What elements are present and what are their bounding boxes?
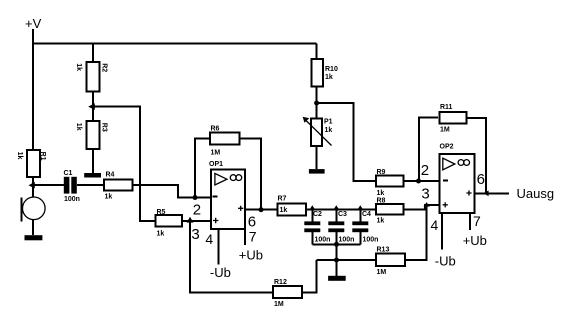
wire R10 to P1 (316, 87, 318, 119)
node dot OP1 output (259, 207, 264, 212)
wire +V stem down to R1 (32, 29, 34, 150)
svg-text:1M: 1M (440, 127, 450, 134)
svg-text:R12: R12 (274, 279, 287, 286)
pin marker plus input OP2 (443, 202, 448, 207)
wire R11 left riser (419, 117, 438, 181)
wire R6 right to output node (240, 139, 262, 210)
svg-text:7: 7 (249, 229, 257, 245)
node junction arrow at pin3 (187, 217, 194, 223)
wire OP2 output (474, 192, 509, 194)
node junction arrow C2 tap (309, 205, 315, 210)
wire C4 stem (359, 210, 361, 245)
wire C1 to R4 (77, 184, 104, 186)
node junction arrow C3 tap (333, 205, 339, 210)
svg-text:6: 6 (477, 171, 485, 188)
svg-text:1k: 1k (377, 218, 385, 225)
resistor R1 (27, 150, 40, 177)
op-amp U2 infinity symbol (458, 160, 464, 166)
svg-text:1k: 1k (157, 230, 165, 237)
svg-text:R1: R1 (39, 152, 46, 161)
svg-text:100n: 100n (315, 237, 331, 244)
svg-text:OP1: OP1 (209, 161, 223, 168)
svg-text:1k: 1k (75, 63, 82, 71)
svg-text:P1: P1 (324, 119, 333, 126)
svg-text:1k: 1k (105, 194, 113, 201)
node dot ground tap (334, 258, 339, 263)
wire caps common bottom rail (312, 243, 360, 245)
resistor R13 (376, 253, 405, 266)
wire C3 stem (335, 210, 337, 245)
node junction arrow C4 tap (357, 205, 363, 210)
wire OP2 pin7 (469, 213, 471, 230)
node junction arrow at R2/R3 (88, 103, 95, 110)
wire node to C1 (33, 184, 64, 186)
potentiometer P1 (311, 119, 322, 146)
wire OP1 pin4 (217, 229, 219, 264)
resistor R6 (210, 133, 240, 145)
svg-text:+Ub: +Ub (239, 248, 263, 263)
svg-text:+V: +V (25, 16, 42, 31)
wire R5 to OP1 non-inverting input (182, 220, 211, 222)
svg-text:R8: R8 (377, 198, 386, 205)
resistor R10 (312, 59, 323, 87)
resistor R7 (277, 203, 306, 215)
svg-text:R5: R5 (157, 209, 166, 216)
svg-text:1k: 1k (75, 123, 82, 131)
op-amp U1 infinity symbol (230, 175, 236, 181)
svg-text:R4: R4 (106, 172, 115, 179)
ground under caps (328, 276, 346, 281)
svg-text:C4: C4 (362, 211, 371, 218)
wire R3 to ground (92, 149, 94, 173)
svg-text:2: 2 (193, 201, 201, 218)
ground under R3 (84, 173, 101, 178)
svg-text:4: 4 (205, 231, 213, 247)
wire C2 stem (311, 210, 313, 245)
wire ground stem (336, 260, 338, 276)
node junction arrow output/R11 (483, 191, 489, 197)
wire junction branch to R9 riser (317, 103, 376, 181)
svg-text:1M: 1M (211, 150, 221, 157)
pin marker minus OP2 (443, 179, 448, 181)
capacitor C1 (64, 177, 70, 194)
wire junction branch to R5 riser (93, 107, 156, 221)
capacitor C4 plates (352, 221, 368, 225)
resistor R8 (376, 204, 404, 215)
svg-text:100n: 100n (64, 196, 80, 203)
wire R8 to OP2 plus input (404, 205, 440, 210)
node junction arrow OP2 plus (423, 202, 429, 206)
node dot caps bottom (334, 242, 339, 247)
svg-text:1M: 1M (377, 269, 387, 276)
svg-text:+Ub: +Ub (463, 233, 487, 248)
svg-text:OP2: OP2 (440, 144, 454, 151)
svg-text:3: 3 (421, 185, 429, 202)
wire top supply rail (32, 43, 317, 45)
pin marker plus output OP2 (466, 190, 471, 195)
svg-text:1M: 1M (274, 301, 284, 308)
svg-text:-Ub: -Ub (210, 265, 231, 280)
svg-text:7: 7 (473, 213, 481, 229)
wire R13 to OP2 plus riser (405, 205, 427, 260)
svg-text:3: 3 (191, 226, 199, 243)
wire R13 line (317, 259, 376, 261)
wire rail corner into R10 (316, 44, 318, 59)
svg-text:R11: R11 (440, 104, 453, 111)
pin marker plus output OP1 (238, 206, 243, 211)
svg-text:1k: 1k (325, 74, 333, 81)
svg-text:100n: 100n (339, 237, 355, 244)
wire R1 to mic node (32, 177, 34, 197)
svg-text:4: 4 (431, 217, 439, 233)
svg-text:R10: R10 (325, 66, 338, 73)
wire R12 riser to R13 wire (302, 260, 317, 293)
svg-text:-Ub: -Ub (435, 253, 456, 268)
svg-text:R7: R7 (278, 196, 287, 203)
wire OP1 output to R7 (245, 209, 277, 211)
resistor R2 (86, 62, 99, 91)
svg-text:Uausg: Uausg (517, 186, 555, 201)
wire mic to ground (32, 220, 34, 236)
wire R2 top stem (92, 43, 94, 63)
capacitor C2 plates (304, 221, 320, 225)
node dot R9/R11 (416, 179, 421, 184)
wire R6 feedback left riser (195, 139, 210, 198)
capacitor C3 plates (328, 221, 344, 225)
svg-text:R13: R13 (377, 247, 390, 254)
resistor R12 (273, 286, 302, 298)
op-amp U1 triangle (215, 173, 227, 185)
svg-text:R3: R3 (100, 123, 107, 132)
resistor R3 (87, 121, 100, 149)
svg-text:1k: 1k (16, 152, 23, 160)
wire P1 to ground (315, 146, 317, 169)
wire R7 to R8 through cap taps (306, 209, 376, 211)
svg-text:C1: C1 (64, 170, 73, 177)
potentiometer P1 wiper arrow (306, 120, 332, 146)
op-amp U2 triangle (443, 158, 455, 170)
svg-text:1k: 1k (280, 207, 288, 214)
microphone M1 (23, 197, 46, 220)
svg-text:C2: C2 (313, 211, 322, 218)
svg-text:R9: R9 (377, 169, 386, 176)
wire pin3 node down to R12 (190, 221, 273, 293)
node dot R10/P1 (314, 101, 319, 106)
ground under mic (25, 235, 43, 240)
wire bottom rail to R12/R13 net (336, 244, 338, 260)
op-amp U1 OP1 box (211, 170, 245, 229)
svg-text:2: 2 (421, 162, 429, 179)
resistor R4 (104, 179, 132, 190)
svg-text:C3: C3 (338, 211, 347, 218)
pin marker plus input OP1 (213, 218, 218, 223)
svg-text:1k: 1k (325, 127, 333, 134)
resistor R5 (156, 215, 183, 227)
svg-text:1k: 1k (377, 190, 385, 197)
node dot pin2 feedback (193, 195, 198, 200)
wire R2 to R3 (92, 92, 94, 122)
wire R4 to OP1 inverting input (132, 185, 211, 197)
op-amp U2 OP2 box (440, 154, 475, 213)
wire OP2 pin4 (441, 213, 443, 249)
wire OP1 pin7 (244, 229, 246, 245)
resistor R11 (440, 112, 467, 124)
resistor R9 (376, 176, 404, 187)
ground under P1 (309, 169, 325, 174)
svg-text:R2: R2 (100, 63, 107, 72)
wire R11 right riser to output (467, 118, 486, 193)
svg-text:100n: 100n (363, 237, 379, 244)
node junction arrow at mic/C1 (29, 182, 35, 189)
pin marker minus OP1 (212, 196, 217, 198)
svg-text:R6: R6 (211, 126, 220, 133)
wire R9 to OP2 inverting input (404, 180, 440, 182)
